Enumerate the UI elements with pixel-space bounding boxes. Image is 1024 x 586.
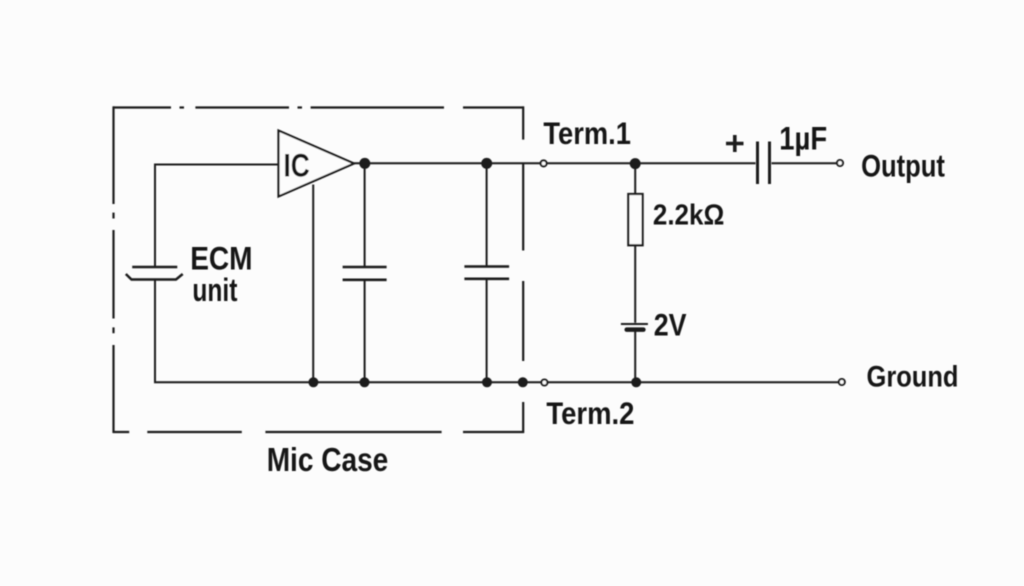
svg-text:Term.1: Term.1 bbox=[543, 115, 631, 151]
svg-text:IC: IC bbox=[284, 148, 310, 184]
svg-text:unit: unit bbox=[192, 272, 237, 308]
svg-text:Mic Case: Mic Case bbox=[267, 441, 389, 478]
svg-text:2V: 2V bbox=[654, 306, 687, 342]
svg-text:Output: Output bbox=[861, 147, 945, 183]
svg-text:2.2kΩ: 2.2kΩ bbox=[653, 200, 724, 232]
svg-text:Ground: Ground bbox=[867, 361, 959, 394]
svg-text:1µF: 1µF bbox=[779, 121, 827, 157]
svg-text:Term.2: Term.2 bbox=[546, 395, 634, 431]
